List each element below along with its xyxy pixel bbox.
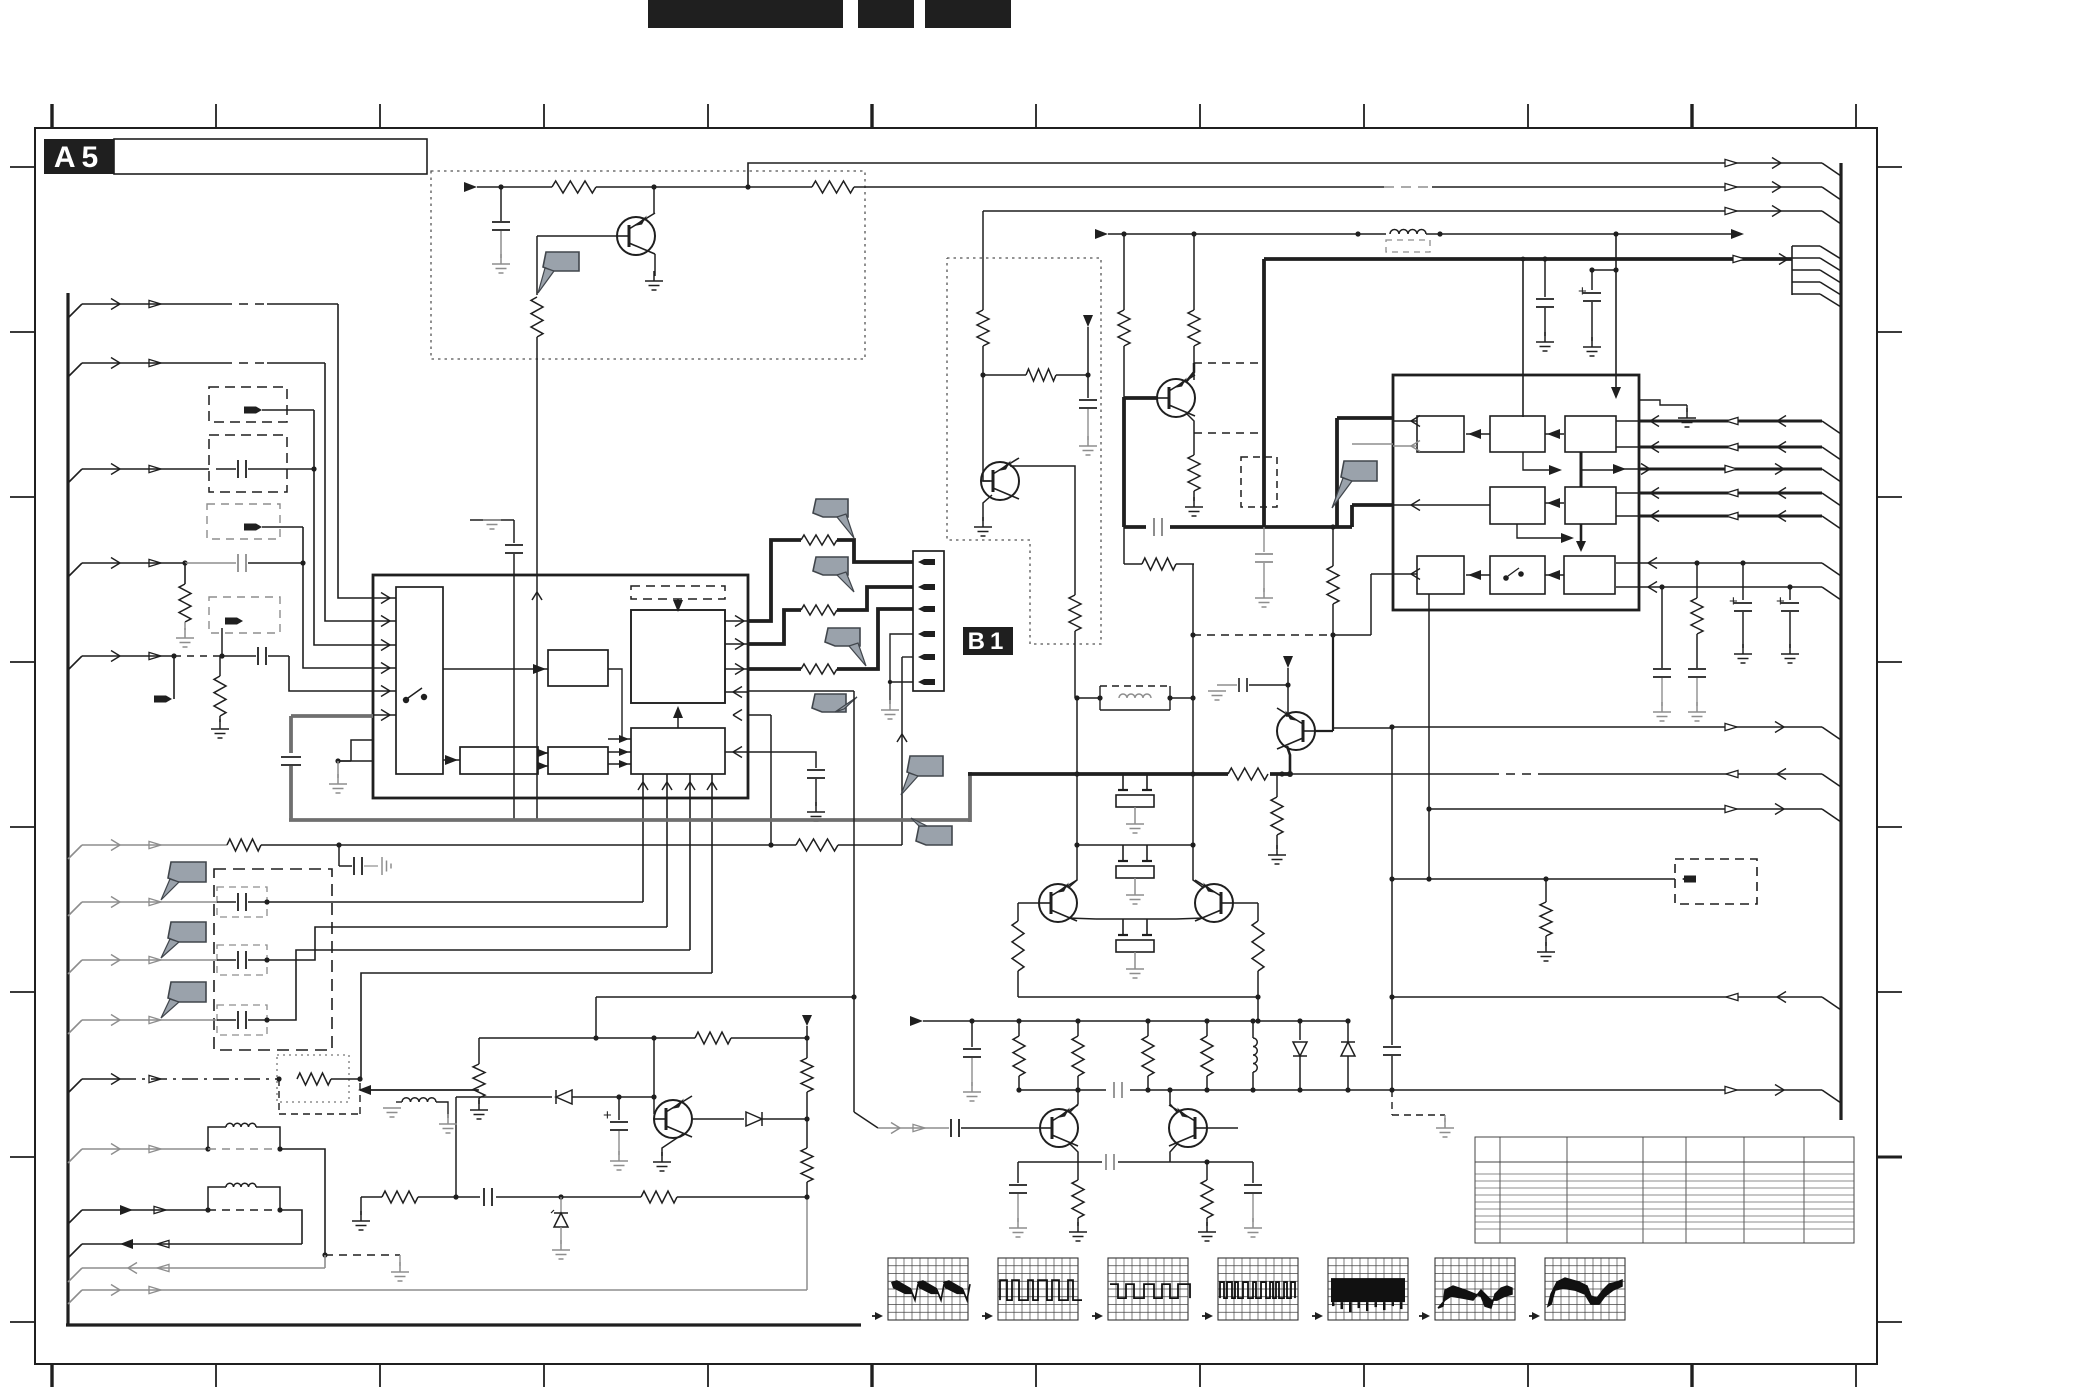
waveform arrow — [1202, 1315, 1211, 1317]
frame tick left — [10, 331, 35, 333]
capacitor C top — [500, 187, 502, 221]
transistor Q7 — [1277, 712, 1315, 750]
dashed q3 collector — [1194, 362, 1264, 364]
ground x1546 — [1545, 942, 1547, 952]
connector pin — [924, 679, 935, 685]
h-resistor emitter network — [1123, 556, 1125, 564]
thick bus up to crystal rail — [968, 772, 972, 822]
bias rail y1038 — [479, 1037, 695, 1039]
U2 bus C1-C2 — [1580, 452, 1583, 487]
wire vertical x456 — [455, 1097, 457, 1197]
wire row1 to IC — [338, 304, 373, 598]
frame tick top — [1527, 104, 1529, 128]
frame tick top — [1035, 104, 1037, 128]
IC U1 outputs — [725, 620, 748, 622]
input row 12 wire — [68, 1210, 82, 1224]
connector mark right box — [1684, 876, 1696, 883]
wire FL1 to node — [262, 409, 314, 411]
wire vcc branch x1194 — [1193, 234, 1195, 310]
frame tick right — [1877, 1321, 1902, 1323]
resistor drop x1078 — [1077, 1021, 1079, 1036]
wire FL4 down — [221, 628, 223, 656]
ground q3 emitter — [1193, 497, 1195, 507]
IC U1 rect N4 — [548, 747, 608, 774]
flag callout row9 — [168, 982, 206, 1002]
diode drop x1348 (reversed) — [1347, 1021, 1349, 1042]
shield box FL1 (dashed) — [209, 387, 287, 422]
dotted box R row10 — [277, 1055, 349, 1102]
wire B1 left vertical — [982, 211, 984, 310]
IC U1 input arrow — [373, 690, 396, 692]
flag pin6 wire — [812, 694, 846, 712]
frame tick left — [10, 166, 35, 168]
crystal X3 — [1122, 919, 1124, 935]
cap between emitters — [1078, 1161, 1102, 1163]
ground pin752 cap — [815, 802, 817, 812]
resistor x1078 — [1077, 1162, 1079, 1180]
wire Q6 base right — [1207, 1127, 1238, 1129]
input row 15 wire (gray) — [68, 1290, 82, 1304]
page frame — [35, 128, 1877, 1364]
dotted box top (bias network) — [431, 171, 865, 359]
ground rail left — [360, 1197, 362, 1215]
connector pin — [924, 654, 935, 660]
arrows N3 to N4 — [538, 752, 548, 754]
arrow C1 to B1r — [1545, 433, 1564, 435]
transistor Q osc left — [1039, 884, 1077, 922]
waveform arrow — [1312, 1315, 1321, 1317]
wire base feed x654 — [653, 1038, 655, 1114]
wire Q7 base from x1333 — [1315, 730, 1333, 732]
ground row11 — [399, 1262, 401, 1272]
table bottom right — [1475, 1137, 1854, 1243]
resistor R at Q7 — [1279, 771, 1284, 776]
wire osc verticals — [1076, 698, 1078, 845]
electrolytic cap amp — [618, 1097, 620, 1120]
wire pin6 — [888, 681, 913, 683]
U2 left pin gray 444 — [1352, 443, 1393, 445]
switch symbol in mux — [403, 697, 409, 703]
capacitor in FL2 — [216, 468, 236, 470]
frame tick top — [50, 104, 53, 128]
frame tick top — [1199, 104, 1201, 128]
IC U2 block — [1393, 375, 1639, 610]
dashed bypass row10 — [278, 1079, 280, 1114]
ground x1697 — [1696, 702, 1698, 712]
IC U1 rect N2 (main) — [631, 610, 725, 703]
U2 right thin wires — [1639, 562, 1822, 564]
svg-text:A5: A5 — [54, 141, 104, 174]
wire row5 branch down — [173, 656, 175, 699]
dashed ground x1392 — [1391, 1090, 1393, 1115]
wire q3 base resistor down — [1123, 527, 1125, 556]
waveform box 1 — [888, 1258, 970, 1320]
connector pin — [924, 584, 935, 590]
U2 left pin thick 505 — [1352, 503, 1393, 507]
svg-text:+: + — [1776, 593, 1785, 610]
input hook lower amp — [854, 1112, 878, 1128]
thick base wire Q3 — [1124, 396, 1157, 400]
wire Q5 emitter — [1069, 1143, 1078, 1162]
waveform arrow — [1092, 1315, 1101, 1317]
wire row6 long — [339, 844, 771, 846]
cap drop x972 — [971, 1021, 973, 1047]
cap right x1697 — [1688, 668, 1706, 670]
flag callout U2 — [1341, 461, 1377, 481]
crystal X1 — [1122, 774, 1124, 790]
schematic inner border bottom — [66, 1323, 861, 1326]
connector mark in FL4 — [225, 618, 237, 625]
IC U1 block — [373, 575, 748, 798]
frame tick left — [10, 496, 35, 498]
cap sub-box row9 — [217, 1005, 267, 1035]
frame tick bottom — [50, 1364, 53, 1387]
dashed q3 emitter — [1194, 432, 1264, 434]
resistor drop x1019 — [1018, 1021, 1020, 1036]
frame tick right — [1877, 496, 1902, 498]
wire IC pin6 loop — [748, 690, 854, 692]
wire Q4 emitter — [662, 1134, 683, 1156]
input row 7 wire — [68, 902, 82, 916]
wire row8 to IC bottom — [267, 927, 667, 960]
cap between collectors — [1106, 1082, 1130, 1098]
wire Q2 emitter — [983, 495, 992, 521]
waveform box 6 — [1435, 1258, 1515, 1320]
U2 right pin stubs — [1616, 420, 1639, 422]
B1 dotted box — [947, 258, 1101, 644]
IC U1 input arrow — [373, 620, 396, 622]
resistor x807 lower — [806, 1119, 808, 1148]
frame tick top — [215, 104, 217, 128]
frame tick bottom — [1363, 1364, 1365, 1387]
capacitor C row4 (gray) — [185, 562, 236, 564]
transistor Q3 — [1157, 379, 1195, 417]
connector pin — [924, 559, 935, 565]
U2 left pin thick 418 — [1337, 416, 1393, 420]
arrow B2 down to B3 — [1517, 524, 1566, 538]
fanout bracket — [1791, 246, 1793, 295]
wire Q osc emitters — [1068, 918, 1096, 919]
waveform box 2 — [998, 1258, 1082, 1320]
wire Q6 emitter — [1170, 1143, 1178, 1162]
ground branch row6 (sideways) — [381, 857, 383, 875]
frame tick top — [1363, 104, 1365, 128]
supply arrow Q7 — [1283, 656, 1293, 668]
hook out top2 — [1822, 187, 1841, 200]
inductor with grounds — [391, 1107, 393, 1109]
flag callout row7 — [168, 862, 206, 882]
crystal X2 — [1122, 845, 1124, 861]
input row 2 wire — [68, 363, 82, 377]
arrow B3 to A3 — [1466, 574, 1490, 576]
resistor R B1 ext — [1069, 595, 1081, 631]
frame tick left — [10, 991, 35, 993]
wire row12 right — [280, 1210, 302, 1244]
resistor R row6 — [227, 839, 261, 851]
frame tick right — [1877, 166, 1902, 168]
connector mark in FL3 — [244, 524, 256, 531]
svg-text:+: + — [1578, 283, 1587, 300]
flag ladder 1 — [813, 499, 848, 517]
capacitor branch row6 — [338, 845, 340, 866]
waveform arrow — [1529, 1315, 1538, 1317]
flag callout crystal rail lower — [916, 826, 952, 845]
arrow mux to N1 — [443, 668, 548, 670]
input row 4 wire — [68, 563, 82, 577]
wire row10 up to y973 — [361, 973, 712, 1079]
U2 rect B3 (switch) — [1490, 556, 1545, 594]
wire y879 to dashed box — [1392, 878, 1675, 880]
ground at Q7 resistor — [1276, 845, 1278, 855]
wire Q7 emitter to rail — [1287, 746, 1290, 772]
ground x1662 — [1661, 702, 1663, 712]
svg-text:B1: B1 — [968, 628, 1009, 655]
resistor on thick rail — [1228, 766, 1270, 782]
frame tick top — [1855, 104, 1857, 128]
ground row4 — [184, 628, 186, 638]
diode D left — [456, 1096, 552, 1098]
resistor R2 row6 — [771, 844, 796, 846]
resistor R x1333 — [1330, 524, 1335, 529]
cap x1392 — [1383, 1046, 1401, 1048]
cap sub-box row7 — [217, 887, 267, 917]
resistor R below flag — [531, 297, 543, 337]
vertical x1392 — [1391, 727, 1393, 1045]
VCC rail wire — [1108, 233, 1386, 235]
resistor R row5 branch — [214, 676, 226, 716]
wire row5 to IC — [289, 656, 373, 691]
resistor R osc right — [1252, 921, 1264, 971]
input arrow top — [464, 182, 477, 192]
IC U1 input mux rect — [396, 587, 443, 774]
waveform box 4 — [1218, 1258, 1298, 1320]
electrolytic right x1790 — [1789, 587, 1791, 600]
wire Q emitter — [654, 254, 656, 276]
zener diode x561 — [560, 1197, 562, 1213]
label B1 block — [963, 627, 1013, 655]
wire Q osc right base — [1233, 902, 1258, 904]
frame tick left — [10, 826, 35, 828]
thick bus crystal rail — [968, 772, 1282, 776]
inductor loop row12 — [208, 1187, 226, 1210]
frame tick left — [10, 661, 35, 663]
wire q3 collector thick — [1186, 363, 1194, 382]
wire Q2 base — [982, 375, 984, 481]
wire FL3 to node — [262, 526, 303, 528]
arrows thick out — [1733, 255, 1745, 262]
frame tick bottom — [1527, 1364, 1529, 1387]
wire x807 gray drop — [806, 1197, 808, 1290]
label A5 block — [44, 139, 114, 174]
wire row3 junction — [287, 468, 314, 470]
rail X3 — [1096, 918, 1176, 920]
resistor R row4 — [184, 563, 186, 584]
ground x1790 — [1789, 644, 1791, 654]
IC U1 input arrow — [373, 644, 396, 646]
ground top cap — [500, 254, 502, 264]
wire x690 vertical — [689, 774, 691, 950]
osc bottom rail — [1018, 996, 1258, 998]
connector mark in FL1 — [244, 407, 256, 414]
thick wire ladder1 — [748, 540, 801, 621]
wire row6 up to connector — [901, 657, 903, 845]
frame tick top — [707, 104, 709, 128]
frame tick right — [1877, 826, 1902, 828]
transistor Q top — [617, 217, 655, 255]
wire vcc branch x1124 — [1123, 234, 1125, 310]
thick wire ladder3 — [748, 667, 801, 671]
ground right1 — [1544, 332, 1546, 342]
U2 rect A3 — [1417, 556, 1464, 594]
wire N1 to N5 — [608, 669, 622, 739]
thick bus bottom horizontal — [289, 818, 970, 822]
resistor R q3 right — [1188, 310, 1200, 346]
IC U1 rect N1 — [548, 650, 608, 686]
connector pin — [924, 631, 935, 637]
shield box FL2 (dashed) — [209, 435, 287, 492]
resistor R right x1697 — [1696, 563, 1698, 598]
ground right2 — [1591, 337, 1593, 347]
resistor left x479 — [478, 1038, 480, 1064]
wire pin752 to cap — [748, 752, 816, 768]
frame tick top — [1690, 104, 1693, 128]
resistor R top1 — [501, 186, 552, 188]
cap at Q7 collector — [1249, 684, 1288, 686]
transistor Q osc right — [1195, 884, 1233, 922]
cap sub-box row8 — [217, 945, 267, 975]
arrow C2 to B2 — [1545, 502, 1564, 504]
shield box FL3 (gray dashed) — [207, 504, 280, 539]
flag ladder 2 — [813, 557, 848, 575]
wire row7 to IC bottom — [267, 901, 643, 903]
wire top out1 — [748, 163, 1822, 187]
frame tick top — [543, 104, 545, 128]
frame tick bottom — [543, 1364, 545, 1387]
resistor R q3 left — [1118, 310, 1130, 346]
arrow up row6 — [897, 734, 902, 742]
resistor x1207b — [1204, 1159, 1209, 1164]
wire Q7 base to out727 — [1333, 727, 1392, 729]
inductor loop row11 — [208, 1127, 226, 1149]
frame tick bottom — [707, 1364, 709, 1387]
ground x479 — [478, 1100, 480, 1110]
frame tick top — [870, 104, 873, 128]
arrow C3 to B3 — [1545, 574, 1564, 576]
U2 rect B2 — [1490, 487, 1545, 524]
IC U1 input arrow — [373, 714, 396, 716]
input row 10 wire (dash-dot) — [68, 1079, 82, 1093]
diode drop x1300 — [1299, 1021, 1301, 1040]
wire emitter left branch — [1018, 1161, 1078, 1163]
resistor R B1 left — [977, 310, 989, 346]
wire into U2 B1r — [1522, 259, 1524, 417]
distribution rail — [923, 1020, 1348, 1022]
wire emitter right branch — [1170, 1161, 1253, 1163]
thick bus IC pin row — [291, 714, 373, 718]
cap on thick rail — [1146, 519, 1170, 535]
wire Q osc left base — [1018, 902, 1039, 904]
wire out y809 — [1426, 806, 1431, 811]
resistor drop x1207 — [1206, 1021, 1208, 1036]
wire x854 vertical upper — [853, 691, 855, 1112]
U2 left pin 574 — [1371, 573, 1393, 575]
connector mark row5 branch — [154, 696, 166, 703]
ground Q emitter — [653, 271, 655, 281]
ground row5 branch — [219, 719, 221, 729]
IC U1 dashed rect top — [631, 586, 725, 599]
resistor R q3 emitter — [1193, 433, 1195, 455]
supply arrow y1038 — [802, 1015, 812, 1026]
arrow line into dotted box y1090 — [360, 1089, 479, 1091]
capacitor pin752 — [807, 769, 825, 771]
electrolytic C right2 — [1613, 267, 1618, 272]
frame tick bottom — [379, 1364, 381, 1387]
cap right x1662 — [1661, 587, 1663, 668]
dashes top2 — [1384, 186, 1432, 188]
input row 9 wire — [68, 1020, 82, 1034]
cap x1253b — [1252, 1162, 1254, 1183]
ground IC stub — [337, 761, 339, 778]
transistor Q5 — [1040, 1109, 1078, 1147]
wire top out3 — [983, 210, 1822, 212]
wire Q7 collector — [1286, 712, 1288, 716]
waveform box 7 — [1545, 1258, 1625, 1320]
trimmer dashed box — [1241, 457, 1277, 507]
IC stub pin8 — [338, 760, 373, 762]
arrow B1r to A1 — [1466, 433, 1490, 435]
waveform arrow — [872, 1315, 881, 1317]
IC U1 input arrow — [373, 667, 396, 669]
wire Q6 collector — [1170, 1090, 1178, 1113]
wire x643 vertical — [642, 774, 644, 902]
ground at Q7 cap — [1216, 690, 1218, 692]
flag ladder 3 — [825, 628, 860, 646]
U2 rect C2 — [1565, 487, 1616, 524]
transistor Q2 B1 — [981, 462, 1019, 500]
IC stub pin7 — [351, 740, 373, 761]
flag callout row8 — [168, 922, 206, 942]
frame tick bottom — [1690, 1364, 1693, 1387]
input row 3 wire — [68, 469, 82, 483]
wire x712 vertical — [711, 774, 713, 973]
header black bar 2 — [858, 0, 914, 28]
U2 ground stub — [1639, 400, 1687, 405]
arrow up in IC — [532, 592, 537, 600]
dashed row y635 — [1193, 634, 1333, 636]
cap below x1264 — [1263, 527, 1265, 552]
frame tick bottom — [1199, 1364, 1201, 1387]
wire out y1090 — [1392, 1089, 1822, 1091]
junctions caps right — [1694, 560, 1699, 565]
waveform box 3 — [1108, 1258, 1190, 1320]
waveform box 5 — [1328, 1258, 1408, 1320]
frame tick bottom — [1855, 1364, 1857, 1387]
wire q3 emitter — [1186, 413, 1194, 433]
transistor Q6 — [1169, 1109, 1207, 1147]
input row 8 wire — [68, 960, 82, 974]
header black bar 3 — [925, 0, 1011, 28]
arrow down center — [1580, 524, 1583, 544]
thick rail y259 — [1264, 257, 1792, 261]
wire row2 to IC — [325, 363, 373, 621]
U2 right thick wires — [1639, 420, 1822, 423]
big shield dashed box rows7-9 — [214, 869, 332, 1050]
wire row9 to IC bottom — [267, 950, 690, 1020]
arrow dashed to N2 — [677, 599, 679, 604]
collector rail y1090 — [1019, 1089, 1392, 1091]
thick vertical q3 base — [1123, 346, 1125, 397]
connector CN B1 — [913, 551, 944, 691]
